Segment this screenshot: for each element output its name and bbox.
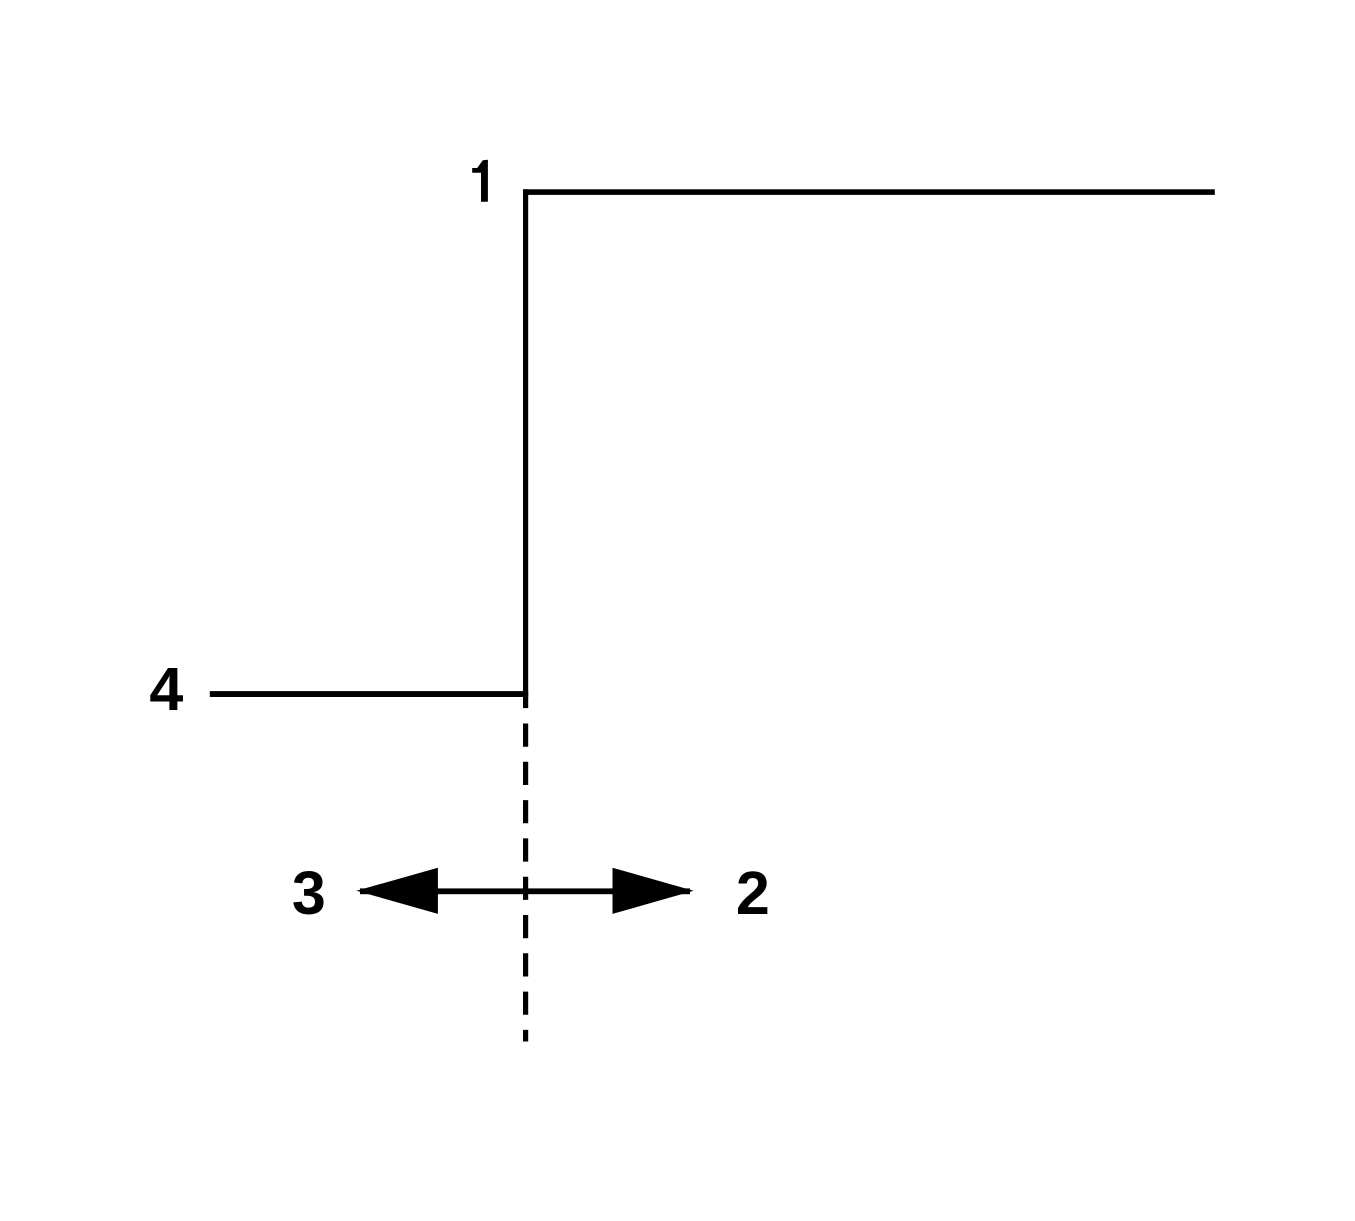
wire: arrow shaft: [360, 888, 690, 894]
wire: vertical edge of step: [523, 189, 528, 708]
wire: lower horizontal line (net 4): [210, 691, 528, 697]
svg-text:4: 4: [149, 655, 183, 723]
right arrowhead (toward 2): [613, 868, 694, 914]
left arrowhead (toward 3): [356, 868, 438, 914]
dashed reference line (node axis): [523, 724, 528, 1042]
svg-text:3: 3: [292, 859, 326, 927]
wire: top horizontal line of step (net 1): [523, 189, 1215, 195]
svg-text:2: 2: [736, 859, 770, 927]
label 1: [472, 160, 488, 202]
